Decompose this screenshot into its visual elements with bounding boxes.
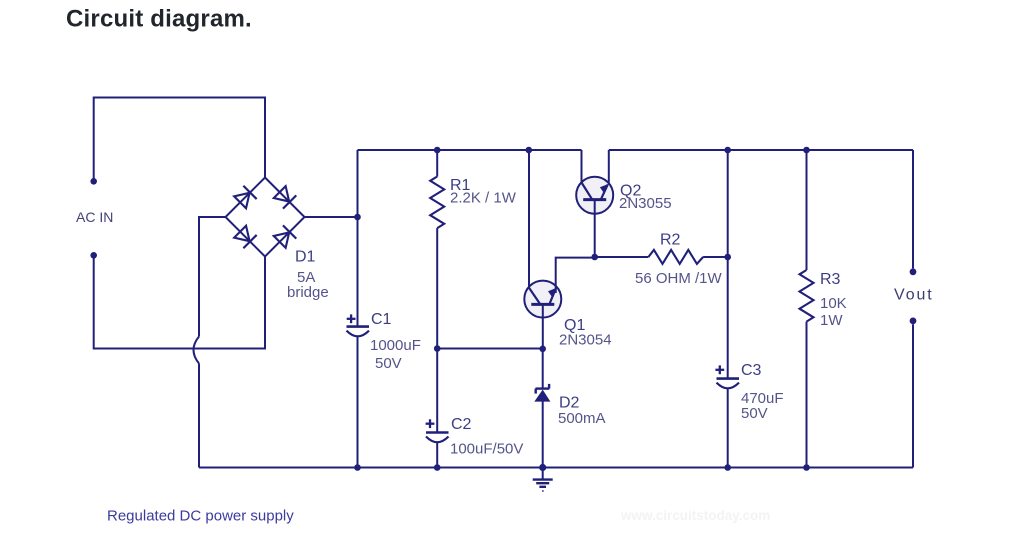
node C2 bottom junction — [434, 464, 441, 471]
node D2 bottom junction — [539, 464, 546, 471]
wire bottom ground rail — [199, 467, 913, 469]
node C3 top junction — [724, 147, 731, 154]
wire Q2 emitter lead — [608, 150, 610, 189]
diode D1c bottom-left — [233, 225, 256, 248]
wire C2 vertical — [436, 349, 438, 468]
diode D2 zener — [534, 384, 550, 402]
svg-text:R2: R2 — [660, 232, 681, 249]
wire AC top loop — [94, 98, 265, 181]
diode D1d bottom-right — [273, 225, 296, 248]
capacitor C3 — [715, 365, 739, 388]
wire R2 right lead — [703, 256, 728, 258]
wire Q2 collector lead — [581, 150, 583, 182]
node Q1 base junction — [539, 346, 546, 353]
diode D1b top-right — [273, 185, 296, 208]
wire Q1 collector lead — [528, 150, 530, 288]
node C1 bottom junction — [354, 464, 361, 471]
svg-text:R3: R3 — [820, 271, 841, 288]
node bridge output junction — [354, 214, 361, 221]
node Q2 base junction — [591, 254, 598, 261]
wire C3 vertical — [727, 150, 729, 468]
wire R1 top lead — [436, 150, 438, 177]
wire top rail right segment — [609, 149, 913, 151]
svg-text:100uF/50V: 100uF/50V — [450, 441, 523, 458]
transistor Q2 — [576, 177, 613, 214]
svg-text:50V: 50V — [741, 405, 768, 422]
svg-text:Circuit diagram.: Circuit diagram. — [66, 6, 252, 33]
diode D1a top-left — [233, 186, 256, 209]
svg-text:bridge: bridge — [287, 284, 329, 301]
wire top rail left segment — [358, 149, 582, 151]
ground — [533, 468, 553, 492]
node R3 bottom junction — [803, 464, 810, 471]
node R1 bottom junction — [434, 345, 441, 352]
wire C1 vertical lower — [357, 336, 359, 468]
svg-text:1000uF: 1000uF — [370, 337, 421, 354]
wire Q1 emitter lead — [556, 258, 595, 293]
wire Vout upper — [912, 150, 914, 268]
svg-text:C3: C3 — [741, 362, 762, 379]
node R1 top junction — [434, 147, 441, 154]
wire C1 vertical upper — [357, 150, 359, 327]
terminal dot AC IN lower — [90, 252, 97, 259]
svg-text:D1: D1 — [295, 249, 316, 266]
wire hop to bottom rail corner — [198, 364, 200, 468]
wire crossover hop — [194, 337, 200, 364]
wire D2 vertical — [542, 349, 544, 468]
wire R1 bottom lead — [436, 228, 438, 348]
wire bridge right vertex to C1 node — [305, 216, 358, 218]
resistor R1 — [430, 177, 444, 229]
svg-text:1W: 1W — [820, 312, 843, 329]
resistor R2 — [648, 250, 703, 264]
svg-text:Vout: Vout — [894, 286, 934, 303]
resistor R3 — [800, 270, 814, 322]
svg-text:50V: 50V — [375, 355, 402, 372]
svg-text:2N3055: 2N3055 — [619, 195, 672, 212]
svg-text:2.2K / 1W: 2.2K / 1W — [450, 190, 517, 207]
node R2 right junction — [724, 254, 731, 261]
wire Q2 base lead — [594, 200, 596, 257]
wire Q1 base lead — [542, 304, 544, 348]
wire R2 left lead — [595, 256, 649, 258]
wire Vout lower — [912, 324, 914, 467]
node C3 bottom junction — [724, 464, 731, 471]
svg-text:Regulated DC power supply: Regulated DC power supply — [107, 508, 294, 525]
svg-text:C2: C2 — [451, 416, 472, 433]
terminal dot AC IN upper — [90, 178, 97, 185]
svg-text:www.circuitstoday.com: www.circuitstoday.com — [620, 508, 770, 523]
node R3 top junction — [803, 147, 810, 154]
svg-text:500mA: 500mA — [558, 410, 606, 427]
svg-text:AC IN: AC IN — [76, 209, 113, 225]
wire base junction horizontal — [437, 348, 543, 350]
node Q1 collector top junction — [526, 147, 533, 154]
bridge rectifier D1 diamond — [226, 178, 305, 257]
capacitor C1 — [347, 314, 370, 336]
svg-text:56 OHM /1W: 56 OHM /1W — [635, 270, 723, 287]
capacitor C2 — [426, 419, 449, 442]
svg-text:D2: D2 — [559, 395, 580, 412]
terminal dot Vout upper — [910, 268, 917, 275]
terminal dot Vout lower — [910, 318, 917, 325]
svg-text:C1: C1 — [371, 311, 392, 328]
transistor Q1 — [524, 281, 561, 318]
wire R3 lower lead — [806, 322, 808, 468]
wire AC bottom loop — [94, 257, 265, 349]
svg-text:10K: 10K — [820, 295, 847, 312]
wire bridge left vertex to negative rail — [199, 217, 226, 337]
wire R3 upper lead — [806, 150, 808, 270]
svg-text:2N3054: 2N3054 — [559, 332, 612, 349]
